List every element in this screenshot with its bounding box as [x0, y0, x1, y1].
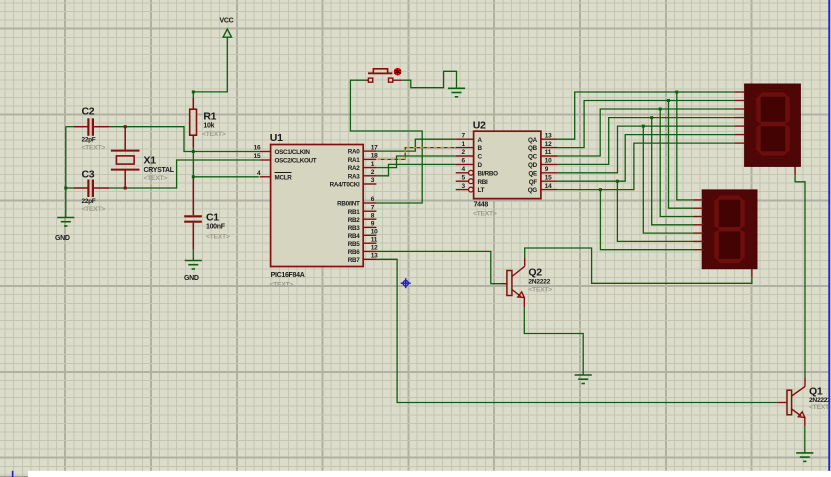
pin DS1 common — [794, 166, 796, 175]
pin DS1 segment d — [735, 117, 745, 119]
pin 9 U1 RB3 — [363, 226, 376, 228]
wire RA2 to C — [376, 156, 455, 168]
svg-text:QA: QA — [528, 137, 538, 144]
wire branch to DS2 d — [652, 118, 694, 225]
wire C3 left — [66, 187, 74, 189]
wire to MCLR pin — [193, 176, 258, 178]
wire DS1 common to Q1 — [795, 175, 805, 378]
svg-text:RB3: RB3 — [348, 225, 360, 232]
svg-text:12: 12 — [371, 245, 378, 252]
pin DS2 segment d — [694, 224, 704, 226]
button pushbutton left terminal — [365, 79, 368, 81]
svg-text:RB1: RB1 — [348, 209, 360, 216]
pin DS2 segment c — [694, 216, 704, 218]
svg-text:GND: GND — [55, 235, 70, 242]
wire branch to DS2 f — [617, 181, 693, 241]
svg-text:RB6: RB6 — [348, 249, 360, 256]
ground left — [57, 218, 74, 227]
svg-text:C3: C3 — [82, 169, 95, 181]
wire C2 to OSC1 — [109, 127, 260, 152]
wire QD to DS1 d — [558, 118, 735, 165]
pin 13 U2 QA — [541, 138, 558, 140]
pin 14 U2 QG — [541, 189, 558, 191]
wire Q2 emitter to gnd — [524, 307, 583, 375]
pin 4 U2 BI/RBO — [456, 172, 469, 174]
pin DS1 segment c — [735, 108, 745, 110]
pin DS2 common — [751, 269, 753, 278]
pin 8 U1 RB2 — [363, 218, 376, 220]
pin 5 U2 RBI — [456, 180, 469, 182]
wire QA to DS1 a — [558, 92, 735, 139]
wire left gnd bus — [65, 127, 67, 218]
pin 3 U1 RA4/T0CKI — [363, 183, 376, 185]
node seg g junction — [599, 188, 602, 191]
node X1 top junction — [124, 125, 127, 128]
wire VCC to R1 — [193, 37, 227, 99]
wire DS2 common to Q2 collector — [525, 248, 752, 283]
wire branch to DS2 a — [677, 92, 694, 200]
wire QC to DS1 c — [558, 109, 735, 156]
power VCC arrow — [223, 29, 231, 37]
wire Q1 emitter to gnd — [804, 426, 806, 453]
svg-text:OSC2/CLKOUT: OSC2/CLKOUT — [275, 158, 317, 165]
wire QG to DS1 g — [558, 143, 735, 190]
button pushbutton bar — [368, 72, 392, 74]
svg-text:QC: QC — [528, 154, 538, 161]
ground Q1 — [796, 453, 813, 462]
svg-text:CRYSTAL: CRYSTAL — [144, 167, 175, 174]
svg-text:RB7: RB7 — [348, 257, 360, 264]
svg-text:OSC1/CLKIN: OSC1/CLKIN — [275, 149, 311, 156]
svg-text:11: 11 — [371, 236, 378, 243]
wire button to RB0/INT — [350, 80, 422, 203]
svg-text:R1: R1 — [203, 111, 216, 123]
svg-text:2N2222: 2N2222 — [528, 278, 550, 285]
wire branch to DS2 e — [643, 126, 693, 233]
svg-text:14: 14 — [545, 183, 552, 190]
window bottom-left blue tick — [12, 471, 14, 477]
pin DS2 segment g — [694, 249, 704, 251]
op-amp U2 body (7448) — [474, 131, 541, 198]
pin DS2 segment b — [694, 207, 704, 209]
pin 13 U1 RB7 — [363, 258, 376, 260]
node seg f junction — [616, 180, 619, 183]
wire C2 left — [66, 126, 74, 128]
svg-text:RB4: RB4 — [348, 233, 360, 240]
svg-text:22pF: 22pF — [82, 137, 96, 144]
svg-text:QF: QF — [529, 179, 538, 186]
wire C1 to gnd — [192, 249, 194, 261]
pin DS1 segment b — [735, 100, 745, 102]
node blue origin crosshair — [401, 278, 411, 288]
pin 11 U1 RB5 — [363, 242, 376, 244]
svg-text:22pF: 22pF — [82, 198, 96, 205]
node R1/OSC1 junction — [192, 150, 195, 153]
pin 1 U1 RA2 — [363, 167, 376, 169]
pin 6 U2 D — [456, 163, 474, 165]
pin 17 U1 RA0 — [363, 150, 376, 152]
pin DS2 segment e — [694, 232, 704, 234]
pin DS2 segment a — [694, 199, 704, 201]
svg-text:LT: LT — [478, 187, 485, 194]
ground button — [448, 88, 465, 97]
wire RA1 to B (dragged, dashed) — [378, 148, 456, 160]
svg-text:Q2: Q2 — [528, 267, 542, 279]
wire branch to DS2 g — [600, 190, 693, 250]
wire QE to DS1 e — [558, 126, 735, 173]
wire RA3 to D — [376, 164, 455, 175]
pin 10 U2 QD — [541, 163, 558, 165]
svg-text:Q1: Q1 — [809, 386, 823, 398]
pin DS1 segment a — [735, 91, 745, 93]
svg-text:7448: 7448 — [474, 202, 489, 209]
transistor Q1 2N2222 — [778, 378, 805, 426]
pin DS1 segment g — [735, 142, 745, 144]
capacitor C3 — [74, 180, 109, 198]
pin 11 U2 QC — [541, 155, 558, 157]
node X1 bottom junction — [124, 187, 127, 190]
svg-text:QE: QE — [528, 170, 537, 177]
pin 9 U2 QE — [541, 172, 558, 174]
resistor R1 — [190, 98, 197, 148]
svg-text:15: 15 — [254, 153, 261, 160]
svg-text:C1: C1 — [206, 212, 219, 224]
svg-text:10: 10 — [545, 158, 552, 165]
display DS1 segments — [759, 95, 788, 154]
window right blue edge — [828, 0, 830, 471]
wire branch to DS2 b — [669, 101, 694, 209]
svg-text:15: 15 — [545, 174, 552, 181]
pin 1 U2 B — [456, 147, 474, 149]
button red actuator marker — [394, 68, 402, 76]
svg-text:U1: U1 — [270, 132, 283, 144]
display DS2 segments — [717, 198, 743, 262]
svg-text:BI/RBO: BI/RBO — [478, 170, 499, 177]
node seg c junction — [659, 108, 662, 111]
svg-text:U2: U2 — [473, 119, 486, 131]
pin 2 U1 RA3 — [363, 175, 376, 177]
pin 7 U2 A — [456, 138, 474, 140]
svg-text:VCC: VCC — [220, 18, 234, 25]
svg-text:<TEXT>: <TEXT> — [528, 287, 552, 294]
wire QF to DS1 f — [558, 135, 735, 182]
pin DS1 segment e — [735, 125, 745, 127]
transistor Q2 2N2222 — [501, 258, 525, 307]
svg-text:<TEXT>: <TEXT> — [144, 175, 168, 182]
wire QB to DS1 b — [558, 101, 735, 148]
svg-text:GND: GND — [184, 275, 199, 282]
svg-text:RB5: RB5 — [348, 241, 360, 248]
pin 16 U1 OSC1/CLKIN — [260, 151, 271, 153]
pin 15 U2 QF — [541, 180, 558, 182]
svg-text:17: 17 — [371, 144, 378, 151]
wire button to gnd — [402, 71, 456, 88]
svg-text:PIC16F84A: PIC16F84A — [271, 272, 305, 279]
pin DS1 segment f — [735, 134, 745, 136]
wire RB6 to Q2 base — [376, 251, 501, 283]
svg-text:RA2: RA2 — [348, 165, 360, 172]
pin 2 U2 C — [456, 155, 474, 157]
node seg b junction — [667, 99, 670, 102]
capacitor C1 — [184, 179, 202, 250]
button pushbutton right terminal — [393, 79, 402, 81]
svg-text:<TEXT>: <TEXT> — [473, 211, 497, 218]
svg-text:RA1: RA1 — [348, 157, 360, 164]
pin 3 U2 LT — [456, 189, 469, 191]
svg-text:RA4/T0CKI: RA4/T0CKI — [330, 182, 360, 189]
node MCLR junction — [192, 175, 195, 178]
capacitor C2 — [74, 118, 109, 136]
svg-text:<TEXT>: <TEXT> — [82, 206, 106, 213]
node seg e junction — [642, 125, 645, 128]
svg-text:RA0: RA0 — [348, 149, 360, 156]
svg-text:<TEXT>: <TEXT> — [82, 144, 106, 151]
wire RB7 to Q1 base — [376, 259, 778, 402]
ground C1 — [185, 261, 202, 270]
svg-text:100nF: 100nF — [206, 224, 226, 231]
svg-text:16: 16 — [254, 145, 261, 152]
pin 12 U2 QB — [541, 147, 558, 149]
svg-text:QB: QB — [528, 145, 538, 152]
node seg a junction — [675, 91, 678, 94]
pin 15 U1 OSC2/CLKOUT — [260, 159, 271, 161]
op-amp U1 body (PIC16F84A) — [271, 145, 364, 267]
svg-text:RA3: RA3 — [348, 173, 360, 180]
crystal X1 — [111, 127, 140, 188]
pin 4 U1 MCLR — [260, 176, 271, 178]
svg-text:<TEXT>: <TEXT> — [809, 404, 831, 411]
svg-text:QG: QG — [528, 187, 538, 194]
svg-text:<TEXT>: <TEXT> — [202, 131, 226, 138]
pin 6 U1 RB0/INT — [363, 202, 376, 204]
pin 7 U1 RB1 — [363, 210, 376, 212]
window bottom white strip — [28, 471, 831, 477]
svg-text:<TEXT>: <TEXT> — [270, 282, 294, 289]
display DS2 7-segment body — [702, 190, 757, 269]
wire RA0 to A — [376, 139, 455, 151]
svg-text:12: 12 — [545, 141, 552, 148]
svg-text:RB2: RB2 — [348, 217, 360, 224]
ground Q2 — [575, 375, 592, 384]
wire C3 to OSC2 — [109, 160, 260, 188]
display DS1 7-segment body — [745, 84, 801, 166]
node VCC/R1 corner dot — [192, 90, 195, 93]
svg-text:<TEXT>: <TEXT> — [206, 234, 230, 241]
svg-text:10k: 10k — [203, 123, 214, 130]
pin DS2 segment f — [694, 240, 704, 242]
node seg d junction — [650, 116, 653, 119]
svg-text:X1: X1 — [144, 155, 157, 167]
pin 12 U1 RB6 — [363, 250, 376, 252]
pin 10 U1 RB4 — [363, 234, 376, 236]
svg-text:13: 13 — [371, 253, 378, 260]
svg-text:11: 11 — [545, 149, 552, 156]
svg-text:QD: QD — [528, 162, 538, 169]
svg-text:RB0/INT: RB0/INT — [337, 201, 360, 208]
pin MCLR overline — [275, 172, 292, 174]
svg-text:13: 13 — [545, 132, 552, 139]
svg-text:10: 10 — [371, 229, 378, 236]
svg-text:18: 18 — [371, 153, 378, 160]
pin 18 U1 RA1 — [363, 158, 376, 160]
wire branch to DS2 c — [660, 109, 693, 217]
svg-text:MCLR: MCLR — [275, 174, 293, 181]
node gnd bus junction — [64, 187, 67, 190]
wire R1 bottom — [192, 148, 194, 152]
window bottom-left gray line — [0, 475, 28, 477]
svg-text:C2: C2 — [82, 106, 95, 118]
svg-text:RBI: RBI — [478, 179, 488, 186]
wire OSC1 to C1/MCLR — [192, 152, 194, 180]
